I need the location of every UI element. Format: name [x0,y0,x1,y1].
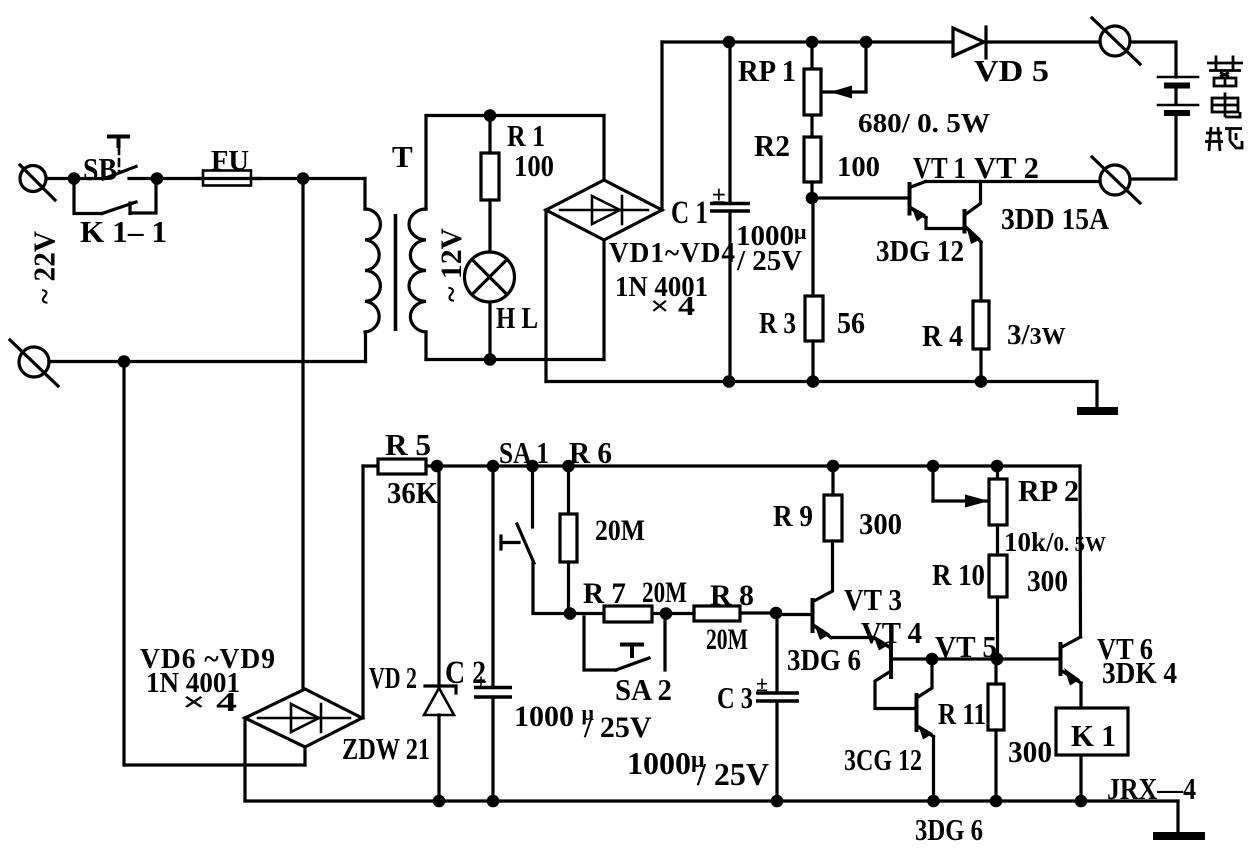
label battery chinese [1205,56,1243,152]
wire lower minus rail [245,799,1178,802]
node [827,460,840,473]
resistor R1 [481,116,499,253]
label VD 5 [974,53,1049,88]
wire [361,466,364,718]
svg-text:100: 100 [837,151,880,183]
node mains-L [68,172,81,185]
svg-text:VD 2: VD 2 [369,660,417,695]
label /25V [736,245,802,277]
label 100 [837,151,880,183]
svg-text:× 4: × 4 [650,291,695,321]
label H L [496,300,538,335]
transistor VT4 [875,644,932,709]
transistor VT5 [917,659,934,801]
terminal circle top-left [20,165,55,200]
svg-text:1000 μ: 1000 μ [514,700,595,733]
svg-text:10k/0. 5W: 10k/0. 5W [1004,527,1106,557]
label VT 3 [844,582,902,617]
label 3DG 12 [876,233,964,268]
wire [987,40,1100,43]
svg-text:SA 2: SA 2 [615,672,672,707]
svg-text:300: 300 [1008,734,1052,769]
svg-text:20M: 20M [595,514,645,547]
wire [932,657,1059,660]
label 56 [837,305,865,340]
ground 2 [1153,832,1205,840]
wire [124,763,305,766]
terminal circle top-right [1092,18,1140,64]
node [660,607,673,620]
node [926,653,939,666]
wire [602,116,605,181]
wire [243,718,246,801]
fuse FU [198,171,260,186]
wire [488,302,491,360]
label RP 2 [1018,473,1079,508]
svg-text:R 7: R 7 [583,577,626,610]
terminal circle bottom-left [10,340,58,386]
svg-text:R2: R2 [754,128,790,163]
svg-text:R 10: R 10 [932,557,985,592]
resistor R11 [988,659,1004,801]
node [526,460,539,473]
label C 1 [671,195,708,231]
svg-text:R 9: R 9 [773,498,813,533]
svg-text:3DG 6: 3DG 6 [787,642,861,677]
node [487,795,500,808]
capacitor C1 [710,42,750,382]
svg-text:R 11: R 11 [938,696,986,731]
transformer core [394,214,398,331]
svg-text:VT 5: VT 5 [935,629,997,664]
bridge rectifier VD1-VD4 [546,180,662,240]
node [562,460,575,473]
svg-text:3CG 12: 3CG 12 [844,742,922,777]
node [771,795,784,808]
label 3CG 12 [844,742,922,777]
battery [1130,42,1198,179]
node [487,460,500,473]
bridge rectifier VD6-VD9 [245,689,362,747]
node [723,36,736,49]
label K 1-1 [80,214,167,249]
label 3DD 15A [1001,201,1110,236]
svg-text:1000μ: 1000μ [627,745,705,781]
label VT 5 [935,629,997,664]
svg-text:R 8: R 8 [710,579,754,612]
node [927,460,940,473]
label VD 2 [369,660,417,695]
wire [1078,466,1082,637]
label R 11 [938,696,986,731]
node [564,607,577,620]
transistor VT2 [965,182,982,302]
capacitor C3 [756,613,799,801]
svg-text:±: ± [756,671,768,696]
label ~22V [27,230,62,304]
label 20M r8 [706,623,748,656]
svg-text:K 1– 1: K 1– 1 [80,214,167,249]
wire [303,747,306,765]
label SB [83,151,117,187]
switch SA1 [501,466,570,614]
transformer T secondary [409,116,426,360]
label VD1~VD4 [609,237,736,269]
node [806,192,819,205]
label 1000u3 [627,745,705,781]
resistor R5 [363,459,436,474]
node [975,375,988,388]
transistor VT1 [910,182,964,229]
label 20M r6 [595,514,645,547]
terminal circle mid-right [1092,157,1140,203]
relay coil K1 [1056,708,1128,755]
wire DC plus rail [662,40,953,43]
label 3DG 6 vt5 [915,812,983,847]
svg-text:680/ 0. 5W: 680/ 0. 5W [858,108,990,138]
svg-text:VD1~VD4: VD1~VD4 [609,237,736,269]
svg-text:VT 1: VT 1 [913,150,966,185]
svg-text:100: 100 [514,148,554,183]
svg-text:3DD 15A: 3DD 15A [1001,201,1110,236]
label VT 1 [913,150,966,185]
svg-text:SA 1: SA 1 [499,435,549,470]
svg-text:R 4: R 4 [922,318,963,353]
svg-text:~ 22V: ~ 22V [27,230,62,304]
wire [157,177,203,180]
wire [1079,755,1082,801]
resistor R8 [666,606,776,621]
svg-text:20M: 20M [642,576,687,609]
label 300 r10 [1027,563,1068,598]
svg-text:VT 3: VT 3 [844,582,902,617]
label K 1 [1071,718,1116,753]
label 3/3W [1007,319,1066,351]
label R 7 [583,577,626,610]
wire collector rail [926,180,1101,183]
transistor VT6 [1061,637,1082,708]
transistor VT3 [776,600,889,651]
label plus [712,182,726,209]
label R 3 [759,305,796,340]
label x4 [650,291,695,321]
node [484,109,497,122]
label RP 1 [738,53,796,88]
label 680/0.5W [858,108,990,138]
label 1000u [736,219,807,252]
label 300 r11 [1008,734,1052,769]
label R 6 [569,435,612,470]
svg-text:3DG 12: 3DG 12 [876,233,964,268]
label R 4 [922,318,963,353]
relay contact K1-1 [74,184,156,214]
svg-text:VT 2: VT 2 [974,150,1039,185]
wire [124,360,366,363]
svg-text:C 3: C 3 [717,680,753,715]
svg-text:/ 25V: / 25V [696,756,769,792]
resistor R6 [560,466,577,614]
svg-text:VD 5: VD 5 [974,53,1049,88]
wire secondary bottom [426,358,604,361]
label /25V3 [696,756,769,792]
label JRX-4 [1107,771,1196,806]
label VT 4 [861,615,922,650]
svg-text:20M: 20M [706,623,748,656]
resistor R7 [570,606,666,622]
resistor R4 [973,301,989,382]
label 20M r7 [642,576,687,609]
potentiometer RP2 [933,466,1007,525]
label R 5 [385,427,431,462]
label 36K [387,475,438,510]
label 300 r9 [859,506,902,541]
label VT 2 [974,150,1039,185]
node [807,375,820,388]
svg-text:H L: H L [496,300,538,335]
transformer T primary [365,179,380,362]
node [991,653,1004,666]
node [118,355,131,368]
svg-text:JRX—4: JRX—4 [1107,771,1196,806]
wire [602,240,605,360]
svg-text:RP 2: RP 2 [1018,473,1079,508]
node [433,795,446,808]
label C 2 [445,655,486,691]
ground [1077,407,1118,415]
svg-text:3/3W: 3/3W [1007,319,1066,351]
wire [544,210,547,382]
svg-text:R 5: R 5 [385,427,431,462]
svg-text:SB: SB [83,151,117,187]
label R 10 [932,557,985,592]
zener diode VD2 [424,466,456,801]
label 3DK 4 [1102,655,1177,690]
svg-text:C 1: C 1 [671,195,708,231]
resistor R10 [989,525,1007,659]
node [484,353,497,366]
resistor R9 [814,466,842,601]
switch SB [74,137,157,180]
label ZDW 21 [342,731,430,766]
label FU [211,146,249,177]
label /25V2 [583,711,652,744]
svg-text:FU: FU [211,146,249,177]
svg-text:R 6: R 6 [569,435,612,470]
svg-text:K 1: K 1 [1071,718,1116,753]
svg-text:R 3: R 3 [759,305,796,340]
label 1N4001 [615,271,708,303]
wire [1176,801,1179,832]
label plus2 [475,669,487,694]
resistor R3 [805,198,823,382]
svg-text:36K: 36K [387,475,438,510]
label 100 [514,148,554,183]
node [431,460,444,473]
wire [660,42,663,210]
wire [256,177,365,180]
svg-text:RP 1: RP 1 [738,53,796,88]
label x4 b [182,687,237,717]
wire [49,360,124,363]
label 1000u2 [514,700,595,733]
svg-text:× 4: × 4 [182,687,237,717]
label ~12V [435,228,468,302]
node [297,172,310,185]
node [1075,795,1088,808]
svg-text:±: ± [712,182,726,209]
label VT 6 [1097,631,1153,666]
label 1N4001 b [146,667,240,699]
label plus3 [756,671,768,696]
node [860,36,873,49]
resistor R2 [804,115,821,198]
node [927,795,940,808]
svg-text:300: 300 [1027,563,1068,598]
label SA 1 [499,435,549,470]
label VD6~VD9 [140,643,276,675]
wire [812,196,908,199]
label T [392,139,413,174]
node [806,36,819,49]
svg-text:VT 4: VT 4 [861,615,922,650]
wire [46,177,74,180]
label SA 2 [615,672,672,707]
node [991,460,1004,473]
label R 9 [773,498,813,533]
switch SA2 [584,614,665,671]
wire mains to VD6-VD9 bridge [301,179,304,690]
wire [1095,382,1098,408]
diode VD5 [953,27,986,58]
svg-text:3DK 4: 3DK 4 [1102,655,1177,690]
label R 8 [710,579,754,612]
wire [122,362,125,766]
node [770,607,783,620]
label R2 [754,128,790,163]
capacitor C2 [474,466,512,801]
svg-text:ZDW 21: ZDW 21 [342,731,430,766]
wire secondary top [426,114,604,117]
svg-text:±: ± [475,669,487,694]
wire DC minus rail [546,380,1097,383]
svg-text:/ 25V: / 25V [736,245,802,277]
node [723,375,736,388]
svg-text:/ 25V: / 25V [583,711,652,744]
label 3DG 6 vt3 [787,642,861,677]
label C 3 [717,680,753,715]
wire lower plus rail [437,464,1080,467]
potentiometer RP1 [804,42,866,115]
node [990,795,1003,808]
svg-text:3DG 6: 3DG 6 [915,812,983,847]
node [151,172,164,185]
svg-text:~ 12V: ~ 12V [435,228,468,302]
svg-text:300: 300 [859,506,902,541]
svg-text:T: T [392,139,413,174]
lamp HL [465,252,515,302]
svg-text:56: 56 [837,305,865,340]
label R 1 [507,118,545,153]
label 10k05W [1004,527,1106,557]
